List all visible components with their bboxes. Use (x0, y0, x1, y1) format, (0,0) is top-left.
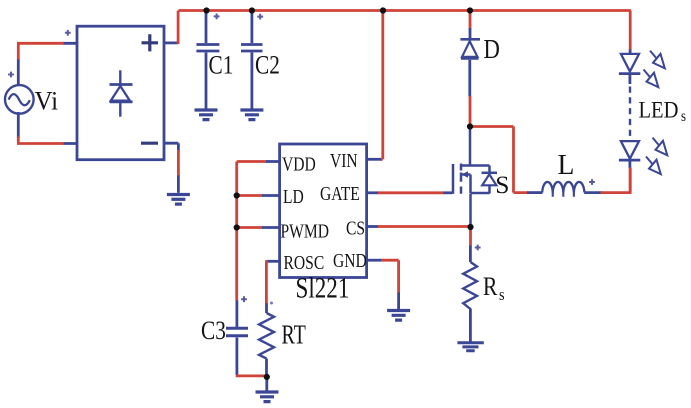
wire dashed LED string (629, 87, 631, 140)
wire inductor to LED string (601, 168, 632, 193)
pin label VDD (282, 153, 316, 175)
polarity mark C2 (257, 14, 263, 20)
node D top (467, 7, 473, 13)
pin label CS (346, 217, 365, 239)
resistor Rs (463, 228, 477, 342)
wire ROSC pin down (266, 260, 279, 304)
wire C3 bottom to node (236, 374, 267, 377)
wire bridge plus output to rail (164, 11, 179, 45)
wire CS pin to source node (367, 225, 470, 228)
polarity mark Rs (475, 245, 481, 251)
wire GND pin to ground (367, 260, 399, 309)
label C2 (255, 52, 280, 80)
pin label GND (333, 249, 367, 271)
wire node to ground (265, 378, 268, 392)
label C1 (209, 52, 234, 80)
wire rail to LED1 (629, 11, 632, 54)
label L (558, 150, 575, 181)
svg-text:S: S (495, 170, 509, 199)
LED1 emission arrows (644, 51, 665, 88)
node PWMD (234, 224, 240, 230)
ground (bridge) (167, 195, 190, 205)
bridge internal diode (119, 70, 121, 84)
ground (C1) (195, 110, 218, 120)
svg-text:s: s (681, 108, 686, 125)
wire switch node to inductor (471, 127, 528, 193)
svg-text:VIN: VIN (330, 149, 358, 171)
resistor RT (259, 303, 274, 376)
diode D (460, 11, 480, 127)
svg-text:D: D (484, 35, 500, 64)
pin label VIN (330, 149, 358, 171)
inductor L (527, 182, 602, 197)
pin label PWMD (281, 220, 330, 242)
svg-text:VDD: VDD (282, 153, 316, 175)
label Vi (35, 86, 59, 116)
node switch (467, 123, 473, 129)
svg-text:PWMD: PWMD (281, 220, 330, 242)
polarity mark bridge input (65, 30, 71, 36)
capacitor C1 (196, 12, 219, 109)
wire top rail (178, 9, 631, 12)
pin label ROSC (283, 251, 324, 273)
capacitor C3 (226, 301, 248, 376)
wire bridge minus output down (164, 143, 179, 193)
polarity mark L (589, 179, 595, 185)
polarity mark C1 (214, 14, 220, 20)
svg-text:s: s (499, 286, 505, 304)
polarity mark RT (270, 302, 273, 305)
wire LED2 to corner (629, 168, 632, 193)
polarity mark Vi (8, 72, 14, 78)
svg-text:GATE: GATE (320, 182, 360, 204)
bridge rectifier (77, 26, 164, 160)
svg-text:Sl221: Sl221 (296, 271, 350, 305)
node C3/RT ground (264, 374, 270, 380)
svg-text:C1: C1 (209, 52, 234, 80)
node VIN drop (380, 7, 386, 13)
svg-text:C3: C3 (201, 317, 226, 345)
wire VDD pin (237, 160, 280, 163)
svg-text:RT: RT (282, 321, 307, 351)
svg-text:GND: GND (333, 249, 367, 271)
MOSFET substrate arrow (462, 171, 469, 177)
wire Vi bottom to bridge input (17, 112, 77, 144)
svg-text:LD: LD (283, 185, 304, 207)
wire LD pin (237, 194, 280, 197)
label D (484, 35, 500, 64)
svg-text:R: R (483, 273, 498, 301)
capacitor C2 (241, 12, 263, 109)
ground (C2) (240, 110, 263, 120)
pin label GATE (320, 182, 360, 204)
wire rail to VIN pin (367, 11, 383, 160)
AC source Vi (5, 85, 34, 114)
LED2 (619, 141, 640, 168)
label RT (282, 321, 307, 351)
pin label LD (283, 185, 304, 207)
ground (RT/C3) (256, 392, 279, 402)
node source/CS (467, 224, 473, 230)
wire PWMD pin (237, 226, 280, 229)
label Rs (483, 273, 505, 304)
node C2 top (249, 7, 255, 13)
LED2 emission arrows (646, 138, 667, 175)
label C3 (201, 317, 226, 345)
polarity mark C3 (241, 296, 247, 302)
ground (IC GND) (387, 311, 410, 321)
svg-text:L: L (558, 150, 575, 181)
svg-text:Vi: Vi (35, 86, 59, 116)
LED1 (619, 54, 640, 84)
ground (Rs) (457, 343, 483, 351)
label Sl221 (296, 271, 350, 305)
IC U1 Sl221 (280, 144, 367, 278)
svg-text:LED: LED (639, 96, 679, 123)
wire GATE pin to MOSFET gate (367, 191, 453, 194)
bridge plus terminal mark (142, 34, 159, 51)
label S (495, 170, 509, 199)
node C1 top (203, 7, 209, 13)
node LD (234, 192, 240, 198)
label LEDs (639, 96, 687, 125)
svg-text:C2: C2 (255, 52, 280, 80)
bridge minus terminal mark (141, 142, 158, 145)
transistor S (MOSFET) (453, 128, 497, 227)
wire VDD/LD/PWMD bus down to C3 (235, 162, 238, 302)
svg-text:CS: CS (346, 217, 365, 239)
wire Vi top to bridge input (17, 43, 77, 86)
